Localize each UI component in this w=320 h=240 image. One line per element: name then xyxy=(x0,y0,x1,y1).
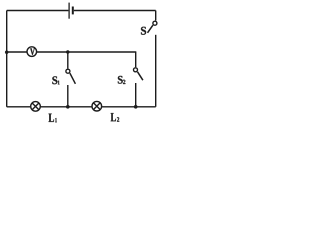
node at S1 branch / middle wire junction xyxy=(66,50,69,53)
label L1 xyxy=(49,114,57,123)
switch S2 xyxy=(134,68,143,80)
lamp L1 xyxy=(31,102,41,112)
switch S1 xyxy=(66,69,76,84)
wire middle left (frame to voltmeter) xyxy=(7,51,27,53)
voltmeter V xyxy=(27,47,37,57)
node at S2 branch / bottom wire junction xyxy=(134,105,137,108)
wire middle right (voltmeter to S2 corner) xyxy=(37,51,136,53)
label S2 xyxy=(118,76,126,84)
wire bottom right (lamp L2 to right frame) xyxy=(102,106,156,108)
lamp L2 xyxy=(92,101,102,111)
label S1 xyxy=(52,76,59,84)
wire S1 branch upper xyxy=(67,52,69,69)
wire right frame upper (corner to switch S) xyxy=(155,11,157,21)
wire top left (frame to battery) xyxy=(7,10,69,12)
label L2 xyxy=(111,113,120,122)
voltmeter letter V xyxy=(30,49,35,55)
wire S2 branch lower xyxy=(135,83,137,107)
node at S1 branch / bottom wire junction xyxy=(66,105,69,108)
wire bottom middle (lamp L1 to lamp L2) xyxy=(41,106,92,108)
battery cell xyxy=(69,3,73,19)
node at left frame / middle wire junction xyxy=(5,51,8,54)
wire left frame vertical xyxy=(6,11,8,107)
switch S xyxy=(148,21,157,33)
wire right frame lower (switch S to bottom corner) xyxy=(155,35,157,107)
label S xyxy=(141,27,146,35)
wire top right (battery to right corner) xyxy=(74,10,156,12)
wire S1 branch lower xyxy=(67,85,69,107)
wire bottom left (frame to lamp L1) xyxy=(7,106,31,108)
wire S2 branch upper (corner down to switch) xyxy=(135,51,137,67)
